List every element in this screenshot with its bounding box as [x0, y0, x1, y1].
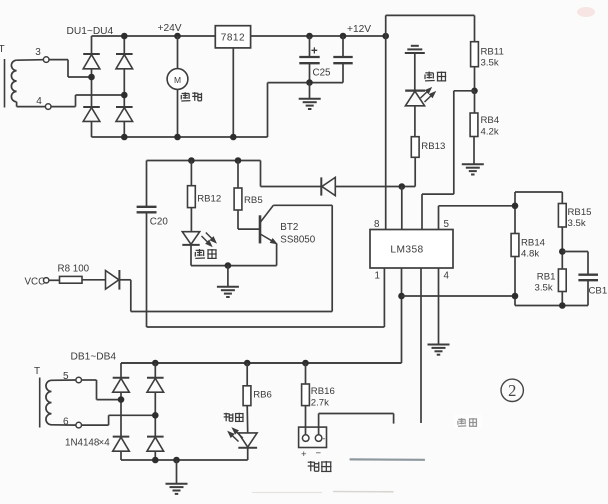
svg-text:CB1: CB1 [589, 286, 608, 297]
svg-text:-: - [323, 434, 326, 444]
svg-text:1: 1 [375, 271, 380, 282]
svg-text:5: 5 [63, 371, 69, 382]
svg-text:DU1~DU4: DU1~DU4 [67, 26, 114, 37]
svg-text:C20: C20 [150, 217, 169, 228]
svg-text:+: + [301, 449, 307, 460]
svg-text:RB14: RB14 [521, 238, 546, 249]
svg-text:+: + [311, 46, 318, 58]
svg-text:RB5: RB5 [244, 195, 263, 206]
svg-text:×4: ×4 [99, 438, 111, 449]
svg-text:6: 6 [63, 416, 69, 427]
svg-text:DB1~DB4: DB1~DB4 [71, 352, 117, 363]
svg-text:RB15: RB15 [568, 207, 592, 218]
svg-text:+24V: +24V [158, 23, 182, 34]
svg-text:2.7k: 2.7k [311, 398, 329, 409]
svg-text:RB13: RB13 [421, 141, 445, 152]
svg-text:T: T [0, 44, 5, 55]
svg-text:4.8k: 4.8k [521, 249, 539, 260]
svg-text:RB4: RB4 [481, 115, 500, 126]
svg-text:RB11: RB11 [481, 47, 504, 58]
svg-text:−: − [316, 448, 322, 459]
svg-text:4: 4 [36, 96, 42, 107]
svg-text:7812: 7812 [221, 33, 245, 44]
svg-text:SS8050: SS8050 [280, 235, 315, 246]
svg-text:RB16: RB16 [311, 386, 335, 397]
svg-text:LM358: LM358 [390, 244, 423, 255]
svg-text:R8 100: R8 100 [58, 264, 90, 275]
svg-text:M: M [174, 75, 181, 85]
svg-text:3: 3 [35, 47, 41, 58]
svg-text:5: 5 [444, 219, 450, 230]
svg-text:T: T [34, 366, 40, 377]
svg-text:8: 8 [374, 219, 380, 230]
svg-text:BT2: BT2 [280, 222, 298, 233]
svg-text:C25: C25 [313, 68, 332, 79]
svg-text:RB1: RB1 [537, 272, 556, 283]
svg-text:RB12: RB12 [197, 194, 221, 205]
svg-text:3.5k: 3.5k [481, 58, 499, 69]
svg-text:3.5k: 3.5k [535, 283, 553, 294]
svg-text:RB6: RB6 [253, 390, 272, 401]
svg-text:+12V: +12V [347, 24, 371, 35]
svg-text:1N4148: 1N4148 [65, 438, 100, 449]
svg-text:3.5k: 3.5k [568, 218, 586, 229]
svg-text:4.2k: 4.2k [481, 127, 499, 138]
svg-text:4: 4 [444, 271, 450, 282]
svg-text:VCC: VCC [25, 277, 46, 288]
svg-text:2: 2 [508, 381, 516, 400]
